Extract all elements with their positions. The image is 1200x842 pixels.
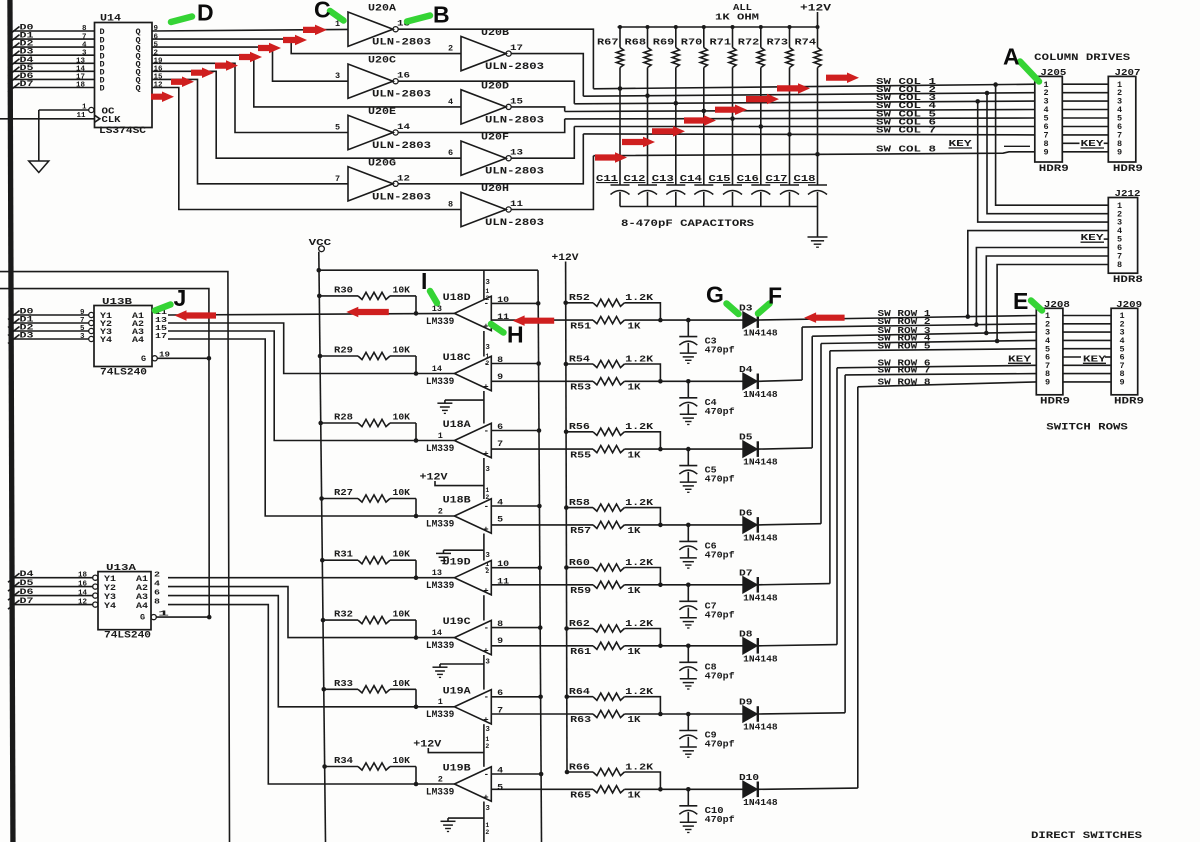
svg-text:R72: R72 [738,37,760,48]
svg-text:1K: 1K [628,646,641,657]
svg-text:1.2K: 1.2K [625,292,653,303]
IC U14 LS374SC body [95,23,153,128]
svg-text:LM339: LM339 [426,641,455,652]
svg-text:1.2K: 1.2K [625,618,653,629]
top rail feeding R67-R74 [618,26,818,28]
svg-text:1K: 1K [628,320,641,331]
comparator U18A LM339 [454,423,491,457]
svg-text:1.2K: 1.2K [625,353,653,364]
marker G [727,304,739,315]
svg-text:7: 7 [497,439,503,449]
svg-text:R53: R53 [570,382,591,393]
svg-text:470pf: 470pf [705,474,735,485]
svg-text:U20A: U20A [368,4,396,15]
red arrow at SW ROW 1 (left) [804,312,845,323]
wire U18D output to U13B A1 [168,313,454,315]
connector J212 HDR8 [1108,198,1137,274]
resistor R70 1K [703,27,705,48]
svg-text:SW ROW 8: SW ROW 8 [878,376,931,387]
svg-text:LS374SC: LS374SC [99,126,146,137]
svg-text:1: 1 [438,431,443,441]
svg-text:3: 3 [335,71,340,81]
junction R67 / SW COL 1 [618,86,623,91]
svg-text:A4: A4 [136,601,148,611]
svg-text:13: 13 [155,317,168,325]
wire U19D output to U13A A1 [168,577,454,579]
junction R71 / SW COL 5 [730,116,735,121]
svg-text:U20E: U20E [368,107,396,118]
resistor R58 1.2K [564,505,569,510]
svg-text:10K: 10K [393,412,411,423]
svg-text:J205: J205 [1040,67,1066,78]
junction R72 / SW COL 6 [759,124,764,129]
svg-text:ULN-2803: ULN-2803 [372,141,431,152]
svg-text:R32: R32 [334,609,353,620]
svg-text:1K OHM: 1K OHM [715,12,759,23]
capacitor C3 470pf [686,318,691,323]
svg-text:R52: R52 [569,292,590,303]
svg-text:U19D: U19D [443,557,471,568]
svg-text:D4: D4 [739,364,753,375]
svg-text:R74: R74 [795,37,817,48]
svg-text:R60: R60 [569,557,590,568]
svg-text:R67: R67 [597,37,619,48]
svg-text:R51: R51 [570,320,591,331]
column wire R67 down to capacitor C11 [619,68,621,186]
svg-text:10: 10 [497,559,509,569]
svg-text:D7: D7 [20,79,34,89]
svg-text:H: H [507,322,524,348]
diode D3 1N4148 [743,312,757,328]
U14 input wire D2 from bus [13,46,95,48]
svg-text:14: 14 [78,589,88,597]
svg-text:-: - [484,502,489,512]
wire D7 cathode to SW ROW 5 [759,584,830,585]
svg-text:470pf: 470pf [705,670,735,681]
wire U19A output to U13A A3 [168,596,454,707]
U13B Y3 output bubble / input D2 [89,328,94,333]
svg-text:6: 6 [448,148,453,158]
svg-text:17: 17 [76,74,85,82]
svg-text:E: E [1013,288,1028,314]
svg-text:74LS240: 74LS240 [100,368,147,379]
connector J209 HDR9 [1111,308,1138,395]
wire U20F output to SW COL 6 [511,127,574,159]
svg-text:LM339: LM339 [426,519,455,530]
red arrow trace (SW COL staircase) [595,152,627,163]
svg-text:2: 2 [485,494,489,501]
svg-text:D9: D9 [739,697,753,708]
wire U20H output to SW COL 8 [511,156,593,210]
svg-text:4: 4 [448,97,453,107]
svg-text:F: F [768,283,782,309]
resistor R31 10K pull-up for U19D [320,558,325,563]
svg-text:1: 1 [82,104,87,112]
svg-text:470pf: 470pf [705,739,735,750]
svg-text:2: 2 [485,360,489,367]
wires J205 to J207 [1062,83,1108,85]
svg-text:9: 9 [1120,378,1125,388]
U13B Y2 output bubble / input D1 [89,320,94,325]
column wire R70 down to capacitor C14 [703,68,705,186]
svg-text:ULN-2803: ULN-2803 [485,115,544,126]
svg-text:10K: 10K [393,678,411,689]
wires J208 to J209 [1063,315,1111,317]
svg-text:ULN-2803: ULN-2803 [372,90,431,101]
svg-text:1: 1 [485,822,489,829]
svg-text:3: 3 [80,333,85,341]
resistor R67 1K [619,27,621,48]
svg-text:16: 16 [154,66,164,74]
comparator U18B LM339 [454,499,491,533]
svg-text:D6: D6 [739,508,753,519]
marker D [171,17,192,23]
wire U14 Q6 to U20G input (fan) [152,79,348,183]
resistor R74 1K [817,27,819,48]
svg-text:Y4: Y4 [104,601,116,611]
svg-text:Y4: Y4 [100,335,112,345]
svg-text:R54: R54 [569,353,590,364]
U14 input wire D6 from bus [13,78,95,80]
resistor R53 1K on comparator + line [491,380,593,382]
tap junctions SW COL 1-3 to J212 [993,82,998,87]
junction R73 / SW COL 7 [787,132,792,137]
svg-text:8: 8 [1117,260,1122,270]
svg-text:9: 9 [1117,147,1122,157]
svg-text:G: G [140,613,145,623]
svg-text:9: 9 [154,25,159,33]
svg-text:4: 4 [154,580,161,588]
svg-text:U18D: U18D [443,293,471,304]
svg-text:16: 16 [78,580,88,588]
svg-text:1: 1 [485,353,489,360]
svg-text:R28: R28 [334,412,353,423]
capacitor C6 470pf [686,523,691,528]
svg-text:1K: 1K [628,449,641,460]
ground between U19C and U19A [440,663,484,665]
svg-text:8: 8 [82,25,87,33]
svg-text:1K: 1K [628,585,641,596]
svg-text:J212: J212 [1115,188,1141,199]
U19D - input (pin 10) to reference rail [491,567,540,569]
IC U13B 74LS240 body [94,306,152,367]
svg-text:10K: 10K [393,487,411,498]
svg-text:U19C: U19C [443,617,471,628]
svg-text:LM339: LM339 [426,377,455,388]
VCC rail vertical [319,252,326,842]
svg-text:R27: R27 [334,487,353,498]
resistor R65 1K on comparator + line [491,788,593,790]
marker H [491,324,504,333]
svg-text:10: 10 [497,295,509,305]
svg-text:LM339: LM339 [426,710,455,721]
J205 pin8 key stub [1004,145,1030,147]
U14 input wire D4 from bus [13,62,95,64]
wire U19B output to U13A A4 [168,605,454,784]
data bus (thick vertical line, left edge) [7,0,15,842]
column wire R72 down to capacitor C16 [760,68,762,186]
connector J208 HDR9 [1036,308,1063,395]
svg-text:74LS240: 74LS240 [104,631,151,642]
svg-text:5: 5 [497,783,503,793]
column wire R71 down to capacitor C15 [732,68,734,186]
svg-text:+: + [483,449,488,459]
svg-text:16: 16 [397,71,410,81]
U19B - input (pin 4) to reference rail [491,773,541,775]
capacitor C4 470pf [686,379,691,384]
svg-text:U20B: U20B [481,28,509,39]
svg-text:U14: U14 [100,14,121,25]
U13B G wire to enable line [157,357,209,359]
svg-text:1.2K: 1.2K [625,686,653,697]
U14 input wire D3 from bus [13,54,95,56]
svg-text:17: 17 [510,43,523,53]
svg-text:G: G [706,282,724,308]
svg-text:8: 8 [497,619,503,629]
svg-text:R55: R55 [570,449,591,460]
reference rail for comparator - inputs [538,270,542,842]
svg-text:COLUMN DRIVES: COLUMN DRIVES [1034,53,1130,64]
svg-text:1.2K: 1.2K [625,557,653,568]
wire U14 Q0 to U20A input [152,29,348,31]
svg-text:R70: R70 [681,37,703,48]
red arrow at U18D + input (left) [513,315,555,326]
svg-text:1.2K: 1.2K [625,421,653,432]
resistor R60 1.2K [564,565,569,570]
wire U14 Q2 to U20C input (fan) [152,47,348,81]
svg-text:+: + [483,716,488,726]
resistor R54 1.2K [564,362,569,367]
U14 input wire D7 from bus [13,87,95,89]
U13A Y3 output bubble / input D6 [93,593,98,598]
svg-text:7: 7 [82,33,87,41]
svg-text:2: 2 [485,568,489,575]
resistor R51 1K on comparator + line [491,319,593,321]
junction R70 / SW COL 4 [702,109,707,114]
svg-text:U18C: U18C [443,353,471,364]
svg-text:I: I [421,268,427,294]
svg-text:R29: R29 [334,345,353,356]
connector J207 HDR9 [1108,76,1136,162]
svg-text:8-470pF CAPACITORS: 8-470pF CAPACITORS [621,219,754,230]
svg-text:9: 9 [1045,378,1050,388]
capacitor C11 470pF [611,184,630,186]
svg-text:6: 6 [154,33,159,41]
svg-text:+: + [483,646,488,656]
svg-text:18: 18 [78,572,88,580]
svg-text:+: + [483,793,488,803]
wire U18B output to U13B A4 [168,339,454,516]
svg-text:R34: R34 [334,755,353,766]
U13A Y2 output bubble / input D5 [93,584,98,589]
svg-text:1N4148: 1N4148 [743,328,778,339]
svg-text:4: 4 [82,41,87,49]
capacitor C8 470pf [686,644,691,649]
svg-text:D7: D7 [739,567,753,578]
svg-text:1N4148: 1N4148 [743,389,778,400]
svg-text:R69: R69 [653,37,675,48]
junction R74 / SW COL 8 [815,152,820,157]
wire U14 Q5 to U20F input (fan) [152,71,461,158]
resistor R52 1.2K [563,301,568,306]
svg-text:D10: D10 [739,772,759,783]
svg-text:2: 2 [448,44,453,54]
wire D5 cathode to SW ROW 3 [759,448,812,449]
resistor R64 1.2K [565,694,570,699]
wire D6 cathode to SW ROW 4 [759,524,821,525]
svg-text:U20H: U20H [481,184,509,195]
buffer U20D ULN-2803 [461,90,506,124]
svg-text:R71: R71 [710,37,732,48]
U14 OC pin with bubble [89,107,94,112]
svg-text:15: 15 [155,325,168,333]
svg-text:1K: 1K [628,525,641,536]
svg-text:D: D [197,0,214,26]
comparator U19D LM339 [454,561,491,595]
svg-text:13: 13 [432,568,442,578]
U14 input wire D0 from bus [13,30,95,32]
comparator U18D LM339 [454,296,491,330]
svg-text:470pf: 470pf [705,609,735,620]
wire rail to ground [817,207,819,238]
resistor R62 1.2K [564,626,569,631]
svg-text:2: 2 [154,49,159,57]
svg-text:HDR8: HDR8 [1113,275,1143,286]
capacitor C16 470pF [751,184,770,186]
svg-text:10K: 10K [393,755,411,766]
svg-text:1N4148: 1N4148 [743,457,778,468]
svg-text:12: 12 [154,82,164,90]
svg-text:12: 12 [78,598,88,606]
resistor R69 1K [675,27,677,48]
wire U18A output to U13B A3 [168,331,454,441]
resistor R30 10K pull-up for U18D [317,294,322,299]
svg-text:17: 17 [155,333,167,341]
svg-text:2: 2 [438,506,443,516]
resistor R68 1K [647,27,649,48]
enable wire 2 from left edge [0,289,209,617]
svg-text:470pf: 470pf [705,345,735,356]
U18A - input (pin 6) to reference rail [491,430,539,432]
svg-text:14: 14 [397,122,410,132]
U19A - input (pin 6) to reference rail [491,696,540,698]
resistor R66 1.2K [565,770,570,775]
svg-text:6: 6 [497,688,503,698]
wire D9 cathode to SW ROW 7 [759,713,845,714]
svg-text:R64: R64 [569,686,590,697]
svg-text:+12V: +12V [413,740,441,751]
svg-text:1N4148: 1N4148 [743,797,778,808]
U13A G wire to enable line [156,616,209,618]
svg-text:470pf: 470pf [705,814,735,825]
resistor R33 10K pull-up for U19A [322,687,327,692]
svg-text:2: 2 [485,295,489,302]
capacitor C18 470pF [808,184,827,186]
svg-text:1.2K: 1.2K [625,497,653,508]
svg-text:7: 7 [335,174,340,184]
capacitor C7 470pf [686,583,691,588]
svg-text:14: 14 [76,66,86,74]
resistor R32 10K pull-up for U19C [321,618,326,623]
svg-text:10K: 10K [393,284,411,295]
wire U20A output to SW COL 1 [398,29,593,89]
buffer U20A ULN-2803 [348,12,393,46]
svg-text:18: 18 [76,82,86,90]
svg-text:B: B [433,2,450,28]
resistor R59 1K on comparator + line [491,584,593,586]
marker F [758,304,770,314]
svg-text:U13A: U13A [106,562,136,573]
column wire R73 down to capacitor C17 [789,68,791,186]
svg-text:1N4148: 1N4148 [743,533,778,544]
svg-text:HDR9: HDR9 [1039,164,1069,175]
svg-text:R58: R58 [569,497,590,508]
svg-text:D: D [100,84,105,94]
svg-text:R65: R65 [570,790,591,801]
svg-text:R61: R61 [570,646,591,657]
svg-text:R63: R63 [570,714,591,725]
buffer U20C ULN-2803 [348,64,393,98]
wire U14 Q3 to U20D input (fan) [152,55,461,107]
marker B [407,16,430,22]
resistor R55 1K on comparator + line [491,448,593,450]
U14 CLK pin (edge triangle) [95,115,100,122]
svg-text:-: - [484,623,489,633]
U14 OC pulldown wire to ground [38,110,40,161]
svg-text:R68: R68 [625,37,647,48]
U18B - input (pin 4) to reference rail [491,505,539,507]
svg-text:SWITCH ROWS: SWITCH ROWS [1046,423,1128,434]
svg-text:470pf: 470pf [705,406,735,417]
svg-text:R59: R59 [570,585,591,596]
svg-text:14: 14 [432,364,442,374]
marker E [1031,301,1042,311]
wire U14 Q1 to U20B input (fan) [152,39,461,54]
resistor R57 1K on comparator + line [491,524,593,526]
svg-text:+: + [483,587,488,597]
svg-text:3: 3 [82,49,87,57]
svg-text:R62: R62 [569,618,590,629]
svg-text:DIRECT SWITCHES: DIRECT SWITCHES [1031,831,1142,842]
U18C - input (pin 8) to reference rail [491,363,538,365]
wire U20D output to SW COL 4 [511,107,565,112]
U13B Y4 output bubble / input D3 [89,336,94,341]
U13B Y1 output bubble / input D0 [89,312,94,317]
column wire R69 down to capacitor C13 [675,68,677,186]
capacitor C9 470pf [686,712,691,717]
comparator U19C LM339 [454,620,491,654]
svg-text:8: 8 [448,200,453,210]
diode D9 1N4148 [743,706,757,722]
svg-text:CLK: CLK [102,115,122,125]
svg-text:R73: R73 [767,37,789,48]
svg-text:U20D: U20D [481,81,509,92]
buffer U20H ULN-2803 [461,192,506,226]
ground below capacitor rail [808,236,828,238]
SW COL row wires 1-8 [593,84,1034,89]
svg-text:10K: 10K [393,609,411,620]
svg-text:2: 2 [438,774,443,784]
svg-text:3: 3 [485,805,490,813]
svg-text:2: 2 [154,572,161,580]
svg-text:R31: R31 [334,549,353,560]
svg-text:8: 8 [497,355,503,365]
svg-text:11: 11 [510,199,523,209]
svg-text:U20F: U20F [481,133,509,144]
capacitor C13 470pF [666,184,685,186]
svg-text:5: 5 [80,325,85,333]
diode D10 1N4148 [743,782,757,798]
